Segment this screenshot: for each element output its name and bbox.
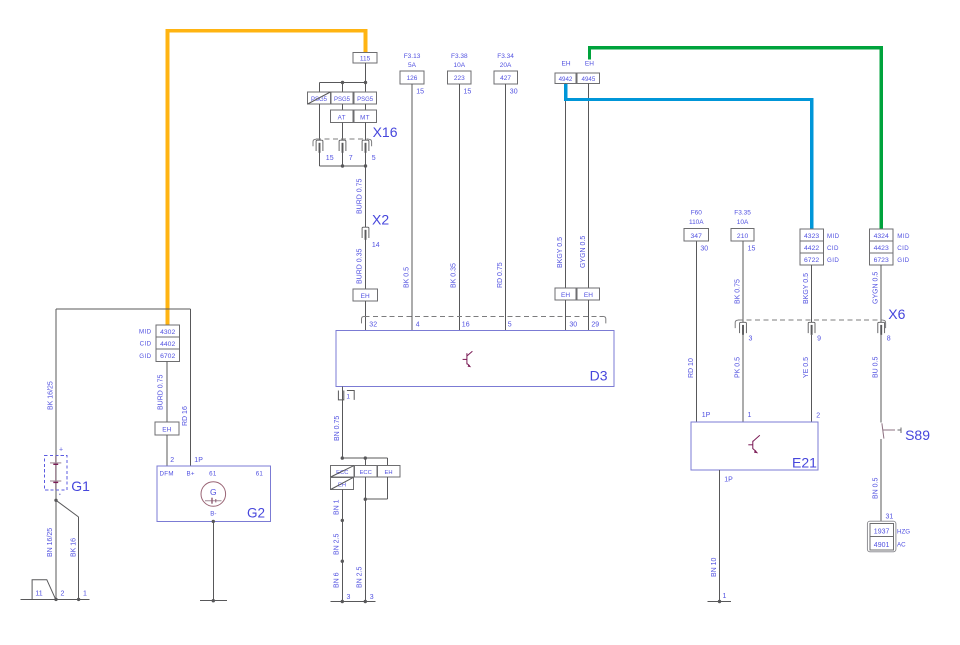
- ground point symbol 11 (trapezoid): [32, 580, 56, 600]
- svg-text:11: 11: [35, 591, 42, 598]
- svg-text:GID: GID: [897, 257, 909, 264]
- svg-text:BKGY 0.5: BKGY 0.5: [557, 237, 564, 268]
- wire AT to X16 pin7: [342, 123, 344, 141]
- connector X6 pin 9: [808, 322, 821, 342]
- svg-text:BN 2.5: BN 2.5: [357, 566, 364, 588]
- wire BN16/25 to ground: [47, 500, 56, 599]
- svg-text:110A: 110A: [689, 219, 704, 226]
- svg-text:6722: 6722: [804, 257, 819, 264]
- connector X6 pin 3: [740, 322, 753, 342]
- pin 2 label: [61, 591, 65, 598]
- ground left: [20, 598, 89, 601]
- svg-text:3: 3: [749, 336, 753, 343]
- pin 2 label G2: [170, 457, 174, 464]
- svg-text:MID: MID: [139, 329, 152, 336]
- svg-text:CID: CID: [140, 341, 152, 348]
- wire psg5-3 to MT: [365, 104, 367, 110]
- svg-text:BK 16: BK 16: [70, 538, 77, 557]
- svg-text:6723: 6723: [874, 257, 889, 264]
- svg-text:30: 30: [700, 245, 708, 252]
- svg-text:4942: 4942: [559, 76, 573, 83]
- fuse F3.38 10A terminal 223: [448, 53, 472, 96]
- label X2: [372, 212, 389, 228]
- fuse F3.35 10A terminal 210: [731, 210, 755, 253]
- svg-text:3: 3: [370, 594, 374, 601]
- svg-text:F3.38: F3.38: [451, 53, 468, 60]
- wire S89 to 1937: [873, 439, 894, 523]
- svg-text:15: 15: [416, 88, 424, 95]
- wire psg5-2 to AT: [342, 104, 344, 110]
- svg-text:61: 61: [209, 471, 217, 478]
- wire fuse223 to D3 pin16: [451, 84, 470, 331]
- svg-text:4402: 4402: [160, 341, 175, 348]
- svg-text:1: 1: [346, 393, 350, 400]
- D3 pin 1 bracket: [338, 391, 354, 401]
- svg-text:HZG: HZG: [897, 528, 910, 535]
- svg-text:347: 347: [691, 233, 703, 240]
- wire X6 pin9 to E21 pin2: [803, 335, 812, 422]
- svg-text:4: 4: [416, 322, 420, 329]
- svg-text:32: 32: [369, 322, 377, 329]
- svg-text:EH: EH: [584, 292, 593, 299]
- pin 1 label: [83, 591, 87, 598]
- svg-text:BN 0.75: BN 0.75: [334, 416, 341, 441]
- svg-text:S89: S89: [905, 427, 930, 443]
- connector X2 pin 14: [362, 227, 380, 249]
- option box ECC (2): [355, 465, 378, 477]
- svg-text:B+: B+: [187, 471, 195, 478]
- wire BK16 to ground: [70, 517, 78, 599]
- wire horizontal node y309: [56, 308, 191, 310]
- svg-text:F3.13: F3.13: [404, 53, 421, 60]
- svg-text:BN 2.5: BN 2.5: [334, 533, 341, 555]
- svg-text:EH: EH: [162, 427, 171, 434]
- svg-text:115: 115: [360, 55, 371, 62]
- svg-text:210: 210: [737, 233, 749, 240]
- wire G2 ground: [200, 520, 227, 603]
- svg-text:20A: 20A: [500, 62, 512, 69]
- option box EH (3): [377, 465, 400, 477]
- svg-text:427: 427: [500, 75, 511, 82]
- svg-text:GYGN 0.5: GYGN 0.5: [873, 272, 880, 304]
- svg-text:G2: G2: [247, 506, 265, 521]
- svg-text:BN 1: BN 1: [334, 499, 341, 515]
- svg-text:5A: 5A: [408, 62, 417, 69]
- control unit D3 box: [336, 330, 614, 386]
- svg-text:4324: 4324: [874, 233, 889, 240]
- svg-text:30: 30: [510, 88, 518, 95]
- svg-text:9: 9: [817, 336, 821, 343]
- wire fuse347 to E21 1P: [688, 241, 697, 422]
- svg-text:AC: AC: [897, 542, 906, 549]
- svg-text:RD 0.75: RD 0.75: [497, 262, 504, 288]
- wire X16 pins join: [320, 153, 368, 168]
- svg-text:PSG5: PSG5: [357, 97, 374, 103]
- wire EH to G2 pin 2: [166, 435, 168, 466]
- pin 3 label left: [347, 594, 351, 601]
- svg-text:CID: CID: [897, 245, 909, 252]
- svg-text:1: 1: [748, 412, 752, 419]
- alternator G2 box: [157, 466, 270, 522]
- svg-text:EH: EH: [561, 61, 570, 68]
- svg-text:30: 30: [569, 322, 577, 329]
- label D3: [590, 368, 608, 384]
- svg-text:4945: 4945: [582, 76, 596, 83]
- svg-text:5: 5: [508, 322, 512, 329]
- svg-text:16: 16: [462, 322, 470, 329]
- svg-text:PK 0.5: PK 0.5: [734, 357, 741, 378]
- wire EH crossed to ground: [334, 490, 344, 602]
- wire EH to D3 pin30: [566, 300, 578, 330]
- svg-text:G1: G1: [71, 478, 90, 494]
- wire ECC2 to ground: [357, 477, 367, 602]
- terminal box 115: [353, 53, 377, 63]
- junction below G1: [54, 499, 57, 502]
- wire BURD0.75 stack to EH: [158, 362, 167, 422]
- svg-text:2: 2: [61, 591, 65, 598]
- svg-text:2: 2: [170, 457, 174, 464]
- svg-text:7: 7: [349, 155, 353, 162]
- svg-text:BK 0.5: BK 0.5: [403, 267, 410, 288]
- splice EH (heater feed): [353, 289, 378, 301]
- svg-text:10A: 10A: [737, 219, 749, 226]
- svg-text:10A: 10A: [454, 62, 466, 69]
- svg-text:31: 31: [886, 514, 894, 521]
- terminal stack 4323/4422/6722 MID CID GID: [800, 229, 840, 265]
- fuse F60 110A terminal 347: [684, 210, 709, 253]
- option box PSG5 (crossed): [308, 92, 331, 104]
- svg-text:223: 223: [454, 75, 465, 82]
- svg-text:29: 29: [591, 322, 599, 329]
- wire RD16 drop to G2 1P: [182, 309, 191, 466]
- svg-text:ECC: ECC: [360, 470, 372, 476]
- pin 3 label right: [370, 594, 374, 601]
- wire fuse210 to X6 pin3: [734, 241, 743, 322]
- svg-text:15: 15: [326, 155, 334, 162]
- connector X16 dashed line: [313, 139, 372, 146]
- terminal stack 4302/4402/6702 MID CID GID: [139, 325, 180, 361]
- wire BK16/25 to battery G1: [48, 309, 57, 501]
- svg-text:126: 126: [407, 75, 418, 82]
- terminal EH 4942: [555, 61, 576, 84]
- svg-text:GYGN 0.5: GYGN 0.5: [580, 236, 587, 268]
- svg-text:1: 1: [723, 593, 727, 600]
- G2 B- label: [210, 511, 216, 518]
- svg-text:4302: 4302: [160, 329, 175, 336]
- svg-text:4323: 4323: [804, 233, 819, 240]
- wire fuse427 to D3 pin5: [497, 84, 512, 331]
- wire BK16 branch diagonal: [56, 500, 79, 517]
- wire X6 pin8 to S89: [873, 335, 882, 423]
- option box ECC (crossed): [331, 465, 355, 477]
- option box MT: [354, 110, 377, 123]
- svg-text:BN 0.5: BN 0.5: [873, 477, 880, 499]
- switch S89: [882, 423, 930, 443]
- terminal stack 1937/4901 HZG AC: [867, 521, 910, 552]
- battery G1: [45, 447, 67, 496]
- svg-text:6702: 6702: [160, 353, 175, 360]
- wire blue 4942 to 4323 (thick): [566, 84, 812, 229]
- svg-text:F3.34: F3.34: [497, 53, 514, 60]
- D3 internal heater symbol: [463, 351, 473, 367]
- svg-text:MID: MID: [897, 233, 910, 240]
- label E21: [792, 455, 817, 471]
- wire E21 to ground: [711, 470, 733, 602]
- wire distribution node: [320, 81, 368, 92]
- svg-text:BKGY 0.5: BKGY 0.5: [803, 273, 810, 304]
- svg-text:1P: 1P: [702, 412, 711, 419]
- connector X16 pin 15: [316, 140, 334, 162]
- label G1: [71, 478, 90, 494]
- option box PSG5 (3): [354, 92, 377, 104]
- svg-text:+: +: [59, 447, 63, 454]
- svg-text:EH: EH: [561, 292, 570, 299]
- terminal EH 4945: [577, 61, 600, 84]
- splice EH (G2 feed): [155, 422, 179, 435]
- wire orange battery feed (thick): [168, 31, 366, 325]
- connector X6 pin 8: [878, 322, 891, 342]
- svg-text:BN 16/25: BN 16/25: [47, 528, 54, 557]
- svg-text:1: 1: [83, 591, 87, 598]
- svg-text:X2: X2: [372, 212, 389, 228]
- svg-text:EH: EH: [585, 61, 594, 68]
- option box EH (crossed, below): [331, 477, 354, 489]
- G2 terminal labels: [160, 471, 264, 478]
- connector X16 pin 7: [339, 140, 353, 162]
- option box AT: [330, 110, 353, 123]
- svg-text:PSG5: PSG5: [334, 97, 351, 103]
- svg-text:BK 0.75: BK 0.75: [734, 279, 741, 304]
- svg-text:BK 0.35: BK 0.35: [451, 263, 458, 288]
- splice EH (pin30): [555, 288, 576, 300]
- ground E21: [708, 600, 732, 603]
- wire psg5-1 to X16 pin15: [319, 104, 321, 140]
- svg-text:D3: D3: [590, 368, 608, 384]
- heater element E21 box: [691, 422, 818, 470]
- svg-text:F60: F60: [691, 210, 703, 217]
- ground center: [330, 600, 375, 603]
- wire BURD0.35 to EH: [356, 240, 365, 289]
- G2 generator circle symbol: [201, 482, 226, 507]
- svg-text:YE 0.5: YE 0.5: [803, 357, 810, 378]
- wire fuse126 to D3 pin4: [403, 84, 420, 331]
- wire EH(3) join: [365, 477, 387, 499]
- terminal stack 4324/4423/6723 MID CID GID: [869, 229, 910, 265]
- svg-text:3: 3: [347, 594, 351, 601]
- E21 internal heater symbol: [748, 435, 760, 453]
- svg-text:CID: CID: [827, 245, 839, 252]
- svg-text:4422: 4422: [804, 245, 819, 252]
- svg-text:BURD 0.35: BURD 0.35: [356, 248, 363, 284]
- svg-text:BU 0.5: BU 0.5: [873, 356, 880, 378]
- wire D3 pin1 down: [334, 386, 343, 458]
- svg-text:BK 16/25: BK 16/25: [48, 381, 55, 410]
- svg-text:1P: 1P: [194, 457, 203, 464]
- svg-text:MID: MID: [827, 233, 840, 240]
- wire 4323 to X6 pin9: [803, 265, 812, 322]
- label X6: [888, 306, 905, 322]
- svg-text:EH: EH: [361, 293, 370, 300]
- svg-text:RD 16: RD 16: [182, 406, 189, 426]
- svg-text:5: 5: [372, 155, 376, 162]
- wire 4324 to X6 pin8: [873, 265, 882, 322]
- svg-text:E21: E21: [792, 455, 817, 471]
- svg-text:RD 10: RD 10: [688, 358, 695, 378]
- svg-text:14: 14: [372, 242, 380, 249]
- svg-text:15: 15: [464, 88, 472, 95]
- svg-text:DFM: DFM: [160, 471, 174, 478]
- svg-text:F3.35: F3.35: [734, 210, 751, 217]
- svg-text:4901: 4901: [874, 542, 890, 549]
- wire MT to X16 pin5: [365, 123, 367, 141]
- svg-text:BN 6: BN 6: [334, 572, 341, 588]
- E21 pin labels top: [702, 412, 821, 420]
- splice EH (pin29): [577, 288, 600, 300]
- svg-text:4423: 4423: [874, 245, 889, 252]
- connector X6 dashed line: [735, 320, 885, 328]
- wire green 4945 to 4324 (thick): [590, 48, 882, 230]
- svg-text:BN 10: BN 10: [711, 557, 718, 577]
- svg-text:8: 8: [887, 336, 891, 343]
- svg-text:61: 61: [256, 471, 264, 478]
- svg-text:EH: EH: [384, 470, 392, 476]
- svg-text:X16: X16: [373, 124, 398, 140]
- svg-text:AT: AT: [338, 114, 346, 121]
- option box PSG5 (2): [331, 92, 353, 104]
- wire EH to D3 pin32: [366, 301, 378, 330]
- label X16: [373, 124, 398, 140]
- svg-text:BURD 0.75: BURD 0.75: [158, 374, 165, 410]
- wire 4942 to EH splice: [557, 84, 566, 288]
- svg-text:GID: GID: [827, 257, 839, 264]
- fuse F3.34 20A terminal 427: [494, 53, 518, 96]
- wire BURD0.75 to X2: [356, 166, 365, 227]
- connector line D3 (dashed): [362, 316, 606, 323]
- label G2: [247, 506, 265, 521]
- svg-text:G: G: [210, 487, 217, 497]
- svg-text:BURD 0.75: BURD 0.75: [356, 178, 363, 214]
- junction node bn: [341, 456, 388, 465]
- wire 4945 to EH splice: [580, 84, 589, 288]
- pin 1P label G2: [194, 457, 203, 464]
- svg-text:X6: X6: [888, 306, 905, 322]
- svg-text:GID: GID: [139, 353, 151, 360]
- svg-text:B-: B-: [210, 511, 216, 518]
- fuse F3.13 5A terminal 126: [400, 53, 424, 96]
- connector X16 pin 5: [362, 140, 376, 162]
- svg-text:2: 2: [816, 413, 820, 420]
- wire X6 pin3 to E21 pin1: [734, 335, 743, 422]
- svg-text:1P: 1P: [724, 477, 733, 484]
- svg-text:MT: MT: [360, 114, 370, 121]
- wire EH to D3 pin29: [589, 300, 600, 330]
- wire 115 down: [365, 63, 367, 83]
- svg-text:15: 15: [748, 245, 756, 252]
- svg-text:1937: 1937: [874, 529, 890, 536]
